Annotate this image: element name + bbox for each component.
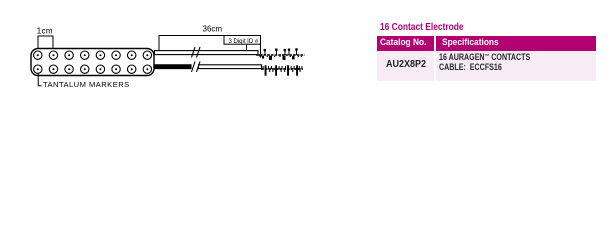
svg-text:TANTALUM MARKERS: TANTALUM MARKERS xyxy=(43,80,130,89)
svg-text:1cm: 1cm xyxy=(37,27,53,36)
svg-text:36cm: 36cm xyxy=(203,25,223,34)
svg-text:3 Digit ID #: 3 Digit ID # xyxy=(229,39,259,45)
